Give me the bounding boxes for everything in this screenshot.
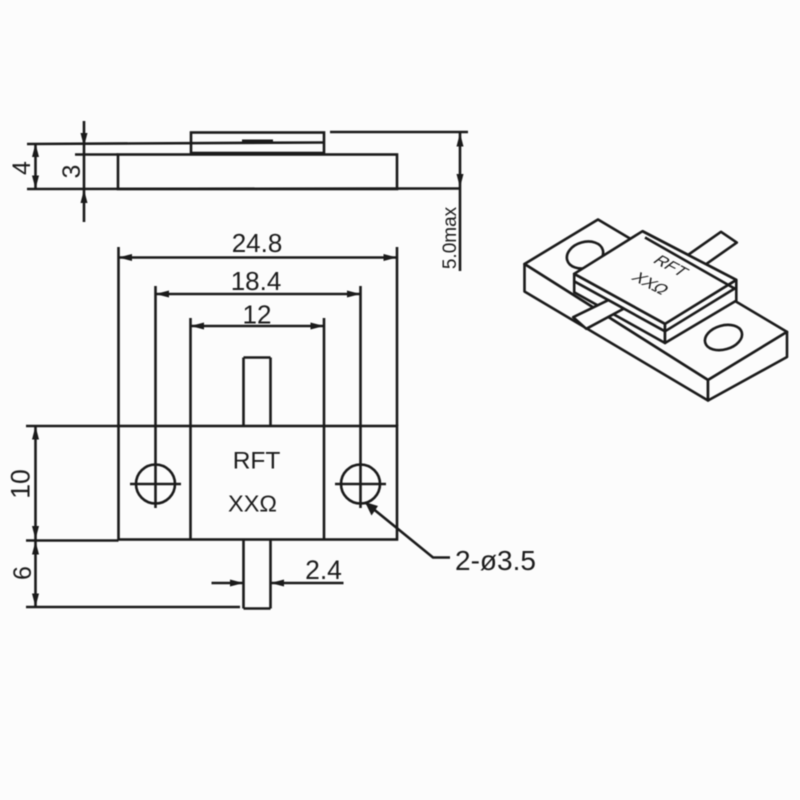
svg-text:24.8: 24.8 <box>232 228 283 258</box>
svg-text:4: 4 <box>8 161 36 175</box>
svg-text:2.4: 2.4 <box>305 555 342 585</box>
svg-text:10: 10 <box>6 469 36 498</box>
svg-text:12: 12 <box>243 300 272 330</box>
svg-text:3: 3 <box>58 165 86 179</box>
svg-text:18.4: 18.4 <box>231 266 282 296</box>
svg-text:RFT: RFT <box>233 448 281 475</box>
svg-text:5.0max: 5.0max <box>440 206 461 269</box>
svg-text:2-ø3.5: 2-ø3.5 <box>455 545 536 576</box>
svg-text:XXΩ: XXΩ <box>228 491 277 517</box>
svg-text:6: 6 <box>9 566 37 580</box>
